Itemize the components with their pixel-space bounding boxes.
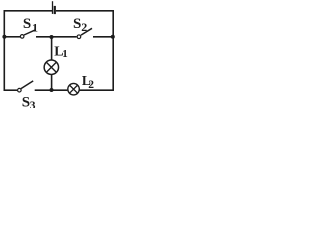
wire: middle wire right segment — [93, 36, 113, 38]
node: junction dot middle wire / L1 branch — [50, 35, 54, 39]
lamp L1 X stroke 1 — [46, 62, 56, 72]
svg-text:S: S — [23, 16, 31, 32]
lamp L1 X stroke 2 — [46, 62, 56, 72]
svg-text:2: 2 — [88, 79, 94, 91]
node: junction dot bottom wire / L1 branch — [50, 88, 54, 92]
switch S1 blade — [24, 30, 36, 35]
svg-text:1: 1 — [32, 21, 38, 35]
battery BT1 long plate — [52, 1, 54, 14]
wire: top wire right segment — [56, 10, 114, 12]
svg-text:3: 3 — [30, 100, 36, 108]
node: junction dot left rail / middle wire — [2, 35, 6, 39]
wire: bottom wire left segment — [4, 89, 18, 91]
lamp L2 X stroke 2 — [70, 86, 77, 93]
node: junction dot right rail / middle wire — [111, 35, 115, 39]
svg-text:1: 1 — [62, 48, 67, 60]
wire: bottom wire center segment — [35, 89, 68, 91]
lamp L2 circle — [68, 83, 80, 95]
switch S3 blade — [21, 81, 33, 89]
lamp L1 circle — [44, 60, 58, 74]
switch S2 pivot circle — [77, 35, 81, 39]
lamp L2 X stroke 1 — [70, 86, 77, 93]
wire: L1 branch upper vertical — [51, 37, 53, 60]
wire: left rail — [3, 10, 5, 91]
switch S3 pivot circle — [18, 88, 22, 92]
wire: L1 branch lower vertical — [51, 74, 53, 90]
switch S2 blade — [81, 28, 92, 35]
switch S1 pivot circle — [20, 35, 24, 39]
wire: bottom wire right segment — [79, 89, 114, 91]
wire: middle wire center segment — [36, 36, 77, 38]
wire: middle wire left segment — [4, 36, 20, 38]
battery BT1 short plate — [54, 6, 56, 14]
svg-text:S: S — [73, 16, 81, 32]
wire: right rail — [112, 10, 114, 91]
wire: top wire left segment — [4, 10, 53, 12]
svg-text:2: 2 — [81, 20, 87, 34]
